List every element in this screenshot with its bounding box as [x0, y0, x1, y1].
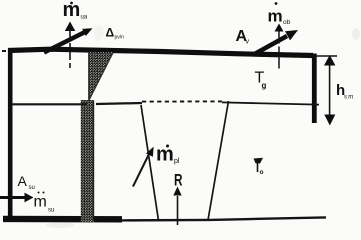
inlet arrowhead — [25, 193, 34, 203]
smoke interface line (solid left) — [11, 103, 87, 105]
svg-text:su: su — [48, 208, 54, 214]
dimension arrowhead bottom — [324, 115, 335, 126]
ceiling — [2, 50, 20, 52]
label A_v (vent area) — [236, 28, 250, 46]
svg-text:pv/n: pv/n — [115, 35, 125, 41]
floor — [3, 216, 122, 223]
right vent flap arrow — [256, 36, 288, 54]
fire arrow shaft — [177, 196, 179, 225]
left vent flow arrow shaft — [69, 31, 71, 71]
right vent flow arrow shaft — [278, 32, 280, 72]
inlet arrow shaft — [0, 196, 26, 199]
svg-text:R: R — [174, 171, 183, 190]
smoke curtain stipple strip — [81, 100, 94, 222]
right wall — [312, 54, 317, 124]
fire arrow head — [173, 187, 181, 196]
svg-text:m: m — [156, 144, 174, 166]
plume right edge — [208, 101, 229, 220]
label Delta_pv/n — [106, 26, 125, 41]
curtain top triangle — [89, 52, 114, 101]
plume left edge — [141, 105, 159, 221]
svg-text:g: g — [262, 81, 267, 90]
svg-text:Δ: Δ — [106, 26, 115, 40]
label m_ua (vent mass flow) — [63, 0, 88, 21]
label m_su (inlet mass flow) — [34, 192, 55, 214]
plume flow arrow shaft — [133, 153, 150, 187]
svg-text:A: A — [18, 173, 28, 189]
label m_pl (plume mass flow) — [156, 144, 180, 166]
scan smudge bottom left — [46, 222, 74, 228]
svg-text:m: m — [268, 7, 283, 26]
label m_ob (vent outflow) — [268, 2, 291, 26]
label h_sm (layer depth) — [336, 82, 354, 101]
svg-text:ua: ua — [81, 15, 88, 21]
right vent flow arrowhead — [275, 24, 284, 32]
left vent flap arrowhead — [82, 28, 92, 36]
svg-text:o: o — [260, 169, 264, 176]
right vent flap arrowhead — [285, 30, 298, 40]
svg-text:pl: pl — [174, 158, 180, 165]
label T_g (smoke layer temperature) — [255, 70, 267, 91]
left vent flow arrowhead — [65, 22, 76, 32]
interface dashed middle — [142, 100, 222, 102]
svg-text:m: m — [34, 194, 47, 211]
svg-text:v: v — [246, 39, 250, 46]
smoke layer depth dimension tick — [316, 55, 337, 57]
dimension arrow shaft — [329, 58, 331, 122]
dimension arrowhead top — [324, 55, 335, 66]
label A_su (inlet area) — [18, 173, 35, 191]
left wall — [8, 49, 13, 222]
svg-text:sm: sm — [344, 95, 354, 101]
scan smudge near delta label — [94, 25, 104, 41]
svg-text:su: su — [29, 185, 35, 191]
plume flow arrowhead — [146, 147, 154, 157]
svg-text:ob: ob — [283, 19, 291, 26]
interface solid middle — [96, 103, 142, 104]
scan smudge right margin — [352, 28, 360, 40]
interface solid right with tick — [222, 102, 319, 104]
label T_0 (ambient temperature) — [254, 158, 264, 176]
left vent flap — [44, 31, 88, 53]
